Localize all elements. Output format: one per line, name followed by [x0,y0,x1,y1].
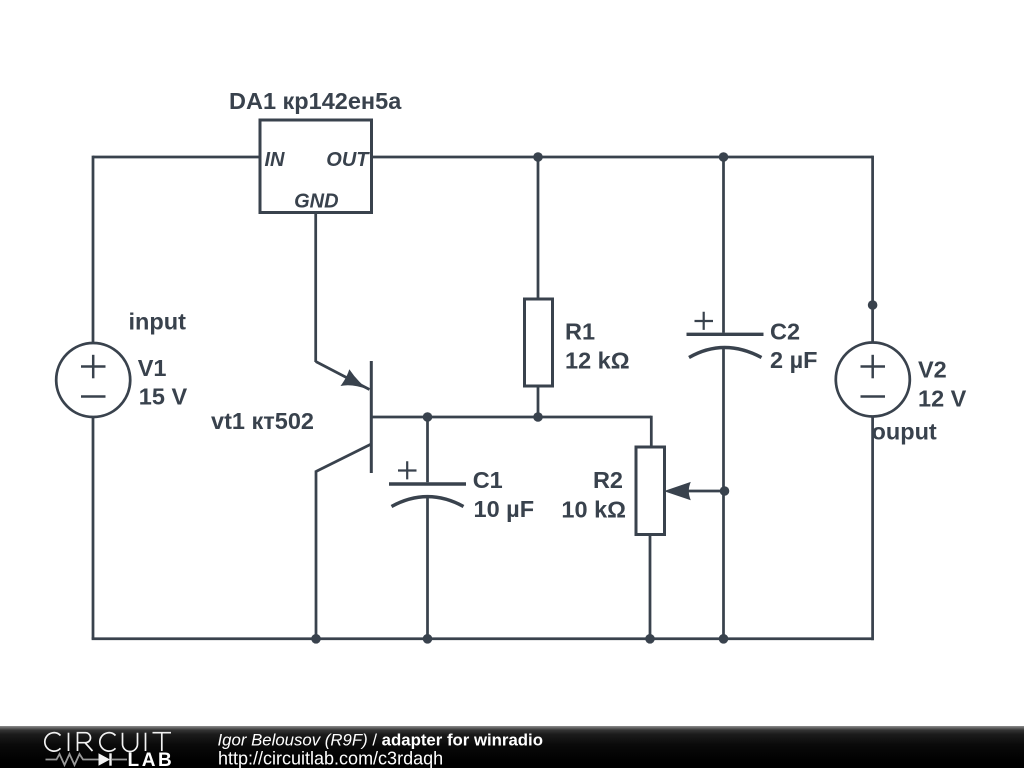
svg-text:R1: R1 [565,319,595,345]
wire left vertical bottom (V1 bottom to rail) [92,417,95,639]
svg-text:DA1 кр142ен5а: DA1 кр142ен5а [229,88,402,114]
junction node wiper at C2 line [720,486,730,496]
svg-text:2 µF: 2 µF [770,347,818,373]
capacitor C2 top plate [687,333,764,336]
logo CIRCUIT letters [45,733,171,752]
wire GND stub down to transistor emitter [314,213,317,363]
svg-text:V2: V2 [918,357,947,383]
voltage source V1 [56,343,130,417]
junction node bottom rail at C2 [719,634,729,644]
svg-text:12 kΩ: 12 kΩ [565,348,630,374]
potentiometer R2 body [636,447,665,535]
wire collector vertical to rail [315,471,318,639]
svg-text:GND: GND [294,191,338,213]
svg-text:12 V: 12 V [918,386,967,412]
svg-text:10 kΩ: 10 kΩ [561,497,626,523]
svg-text:10 µF: 10 µF [474,496,535,522]
capacitor C2 curved plate [689,348,762,358]
wire C2 bottom [722,348,725,639]
regulator DA1 box [260,120,372,213]
junction node top rail at R1 [533,152,543,162]
svg-text:Igor Belousov (R9F) / adapter: Igor Belousov (R9F) / adapter for winrad… [218,730,543,749]
transistor emitter arrow [341,369,368,389]
capacitor C1 curved plate [392,497,464,507]
capacitor C1 top wire [426,417,429,482]
svg-text:vt1 кт502: vt1 кт502 [211,408,314,434]
svg-text:R2: R2 [593,467,623,493]
junction node top rail at C2 [719,152,729,162]
capacitor C1 plus sign [398,461,417,479]
svg-text:15 V: 15 V [139,384,188,410]
wire C1 bottom [426,497,429,639]
junction node bottom rail at C1 [423,634,433,644]
wire bottom rail [92,637,873,640]
wire R2 top corner [650,416,653,447]
transistor base bar [370,361,373,473]
resistor R1 top wire [537,157,540,299]
svg-text:input: input [129,309,187,335]
wire top rail left (V1 to DA1 IN) [93,156,260,159]
transistor Q1 vt1 кт502 emitter diagonal [316,362,370,390]
logo diode [99,753,111,765]
svg-text:V1: V1 [138,355,167,381]
logo resistor diode line [46,754,128,765]
capacitor C2 top wire [722,157,725,333]
svg-text:ouput: ouput [872,419,937,445]
svg-text:IN: IN [265,149,286,171]
transistor collector diagonal [316,444,371,472]
svg-text:C1: C1 [473,467,503,493]
junction node bottom rail at R2 [645,634,655,644]
capacitor C1 top plate [389,482,466,485]
voltage source V2 [836,343,910,417]
wire left vertical top (V1 top) [92,156,95,344]
wire base line to R2 corner [373,416,652,419]
wire top rail right (DA1 OUT to right corner) [372,156,873,159]
svg-text:OUT: OUT [326,149,370,171]
junction node output above V2 [868,300,878,310]
svg-text:http://circuitlab.com/c3rdaqh: http://circuitlab.com/c3rdaqh [218,749,443,768]
capacitor C2 plus sign [695,312,714,330]
potentiometer wiper wire [688,490,725,493]
svg-text:LAB: LAB [128,750,175,768]
junction node base at R1 [533,412,543,422]
junction node bottom rail at collector [311,634,321,644]
wire R1 bottom [537,386,540,417]
svg-text:C2: C2 [770,319,800,345]
wire right vertical bottom (V2 to rail) [871,417,874,641]
wire right vertical top (rail to V2) [871,156,874,343]
potentiometer wiper arrow [664,482,691,500]
wire R2 bottom [649,535,652,639]
resistor R1 body [525,299,553,386]
junction node base at C1 [423,412,433,422]
